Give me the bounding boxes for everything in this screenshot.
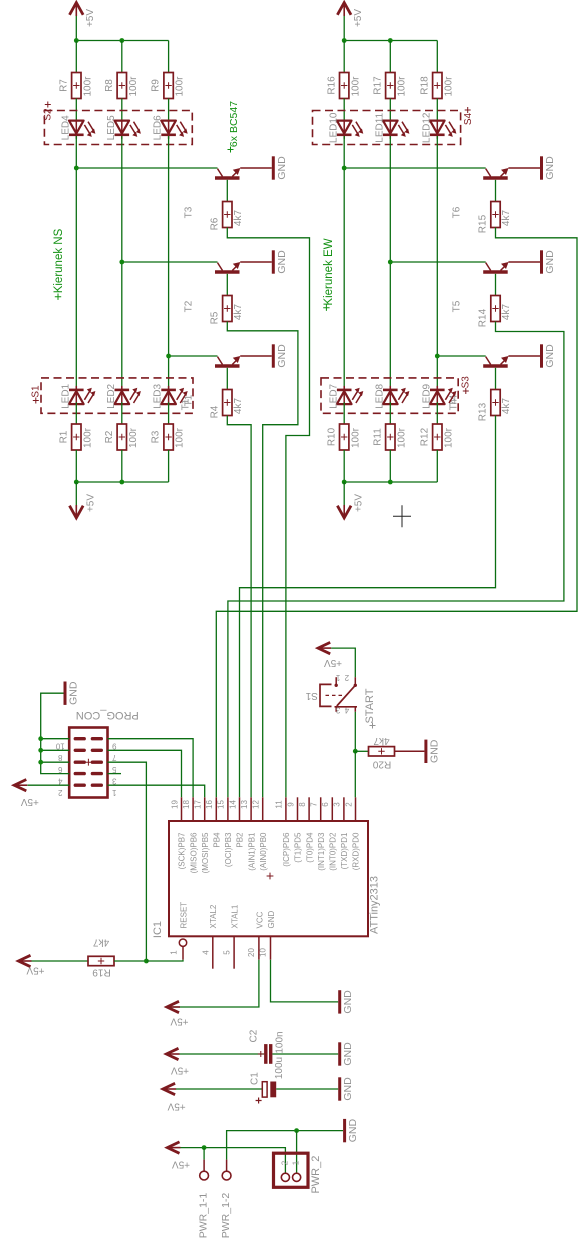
svg-text:(AIN0)PB0: (AIN0)PB0 [259, 832, 268, 871]
wire LED column [121, 136, 123, 389]
svg-text:6: 6 [58, 765, 63, 774]
junction [166, 354, 171, 359]
wire collector row T6 EW [344, 167, 486, 169]
svg-text:(TXD)PD1: (TXD)PD1 [340, 832, 349, 869]
wire collector row T4 EW [437, 355, 485, 357]
ground [340, 1077, 354, 1101]
svg-text:S1: S1 [305, 690, 318, 701]
svg-text:100r: 100r [128, 76, 139, 97]
capacitor C2 [248, 1029, 285, 1064]
svg-text:100r: 100r [443, 427, 454, 448]
wire collector row T5 EW [390, 261, 485, 263]
svg-text:100r: 100r [175, 427, 186, 448]
svg-text:R20: R20 [372, 758, 391, 769]
wire LED column [343, 136, 345, 389]
wire R5 base net to PB0 [227, 322, 298, 798]
wire +5V top rail NS [76, 40, 168, 42]
svg-text:(SCK)PB7: (SCK)PB7 [178, 832, 187, 869]
svg-text:+5V: +5V [26, 964, 44, 975]
svg-text:LED8: LED8 [374, 383, 385, 408]
+5V supply [14, 780, 39, 808]
junction [74, 166, 79, 171]
wire C2 to ground [272, 1053, 338, 1055]
resistor R14 [478, 296, 513, 328]
wire header pin3 stub [108, 773, 122, 775]
svg-text:20: 20 [247, 948, 256, 957]
label Kierunek EW [323, 238, 335, 311]
resistor R5 [209, 296, 244, 325]
svg-text:17: 17 [194, 800, 203, 809]
LED LED2 [106, 383, 141, 408]
wire R4 base net to PB1 [227, 416, 251, 798]
wire R2 to rail [121, 450, 123, 482]
svg-text:PWR_1-2: PWR_1-2 [220, 1193, 232, 1239]
wire header pin2 to +5V [28, 784, 70, 786]
wire +5V bottom rail NS [76, 481, 168, 483]
IC1 pin 18 (MISO)PB6 [182, 797, 198, 873]
svg-text:S3: S3 [460, 376, 471, 389]
svg-text:(T1)PD5: (T1)PD5 [294, 832, 303, 863]
IC1 pin 15 (OCI)PB3 [217, 797, 233, 867]
resistor R17 [372, 73, 407, 99]
wire R19 to junction [114, 960, 146, 962]
svg-text:1: 1 [112, 788, 117, 797]
junction [342, 166, 347, 171]
resistor R7 [58, 73, 93, 99]
wire LED column [75, 136, 77, 389]
+5V supply [337, 3, 363, 41]
wire R14 base net to PB3 [228, 322, 564, 798]
wire +5V to C1 [176, 1088, 262, 1090]
+5V supply [18, 955, 45, 975]
wire VCC net [167, 960, 259, 1007]
svg-text:2: 2 [281, 1160, 290, 1165]
junction [38, 736, 43, 741]
ground [65, 681, 79, 705]
resistor R2 [104, 424, 139, 450]
svg-text:3: 3 [112, 776, 117, 785]
svg-text:100r: 100r [350, 427, 361, 448]
svg-text:4k7: 4k7 [501, 210, 512, 227]
LED group box S2 [42, 102, 192, 145]
svg-text:+5V: +5V [85, 494, 96, 512]
svg-text:100r: 100r [175, 76, 186, 97]
pad PWR_1-2 [220, 1160, 232, 1239]
svg-text:6x BC547: 6x BC547 [228, 101, 240, 147]
svg-text:R15: R15 [478, 214, 489, 233]
resistor R3 [151, 424, 186, 450]
svg-text:10: 10 [55, 741, 64, 750]
svg-text:R16: R16 [326, 76, 337, 95]
svg-text:R12: R12 [419, 427, 430, 446]
svg-text:S1: S1 [30, 385, 41, 398]
svg-text:1: 1 [170, 950, 179, 955]
svg-text:Kierunek EW: Kierunek EW [323, 238, 335, 305]
ground [340, 1042, 354, 1066]
wire emitter to ground [508, 355, 540, 357]
resistor R19 [88, 937, 114, 978]
resistor R16 [326, 73, 361, 99]
wire R7 to rail [75, 41, 77, 73]
label Kierunek NS [53, 228, 65, 300]
LED LED5 [106, 115, 141, 140]
IC1 pin 9 (T1)PD5 [286, 797, 302, 862]
svg-text:+5V: +5V [353, 9, 364, 27]
svg-text:R6: R6 [209, 217, 220, 230]
wire LED column [436, 136, 438, 389]
svg-text:(AIN1)PB1: (AIN1)PB1 [247, 832, 256, 871]
wire PWR_1-2 to ground rail [227, 1131, 343, 1160]
junction [388, 260, 393, 265]
svg-text:+5V: +5V [167, 1100, 185, 1111]
svg-text:18: 18 [182, 800, 191, 809]
ground [542, 156, 556, 180]
svg-text:4k7: 4k7 [373, 735, 390, 746]
switch S1 START [305, 673, 357, 715]
junction [74, 480, 79, 485]
svg-text:4k7: 4k7 [233, 210, 244, 227]
svg-text:13: 13 [240, 800, 249, 809]
svg-text:LED10: LED10 [328, 112, 339, 143]
wire header pin10 [41, 738, 69, 740]
svg-text:T2: T2 [184, 300, 195, 312]
LED LED3 [153, 383, 188, 408]
wire header pin8 [41, 749, 69, 751]
junction [74, 38, 79, 43]
svg-text:PB2: PB2 [236, 832, 245, 848]
svg-text:PROG_CON: PROG_CON [76, 709, 139, 721]
svg-text:100r: 100r [396, 427, 407, 448]
svg-text:3: 3 [335, 706, 340, 715]
LED LED7 [328, 383, 363, 408]
wire junction to R20 [355, 750, 368, 752]
svg-text:(OCI)PB3: (OCI)PB3 [224, 832, 233, 867]
wire base [495, 368, 497, 390]
svg-text:LED7: LED7 [328, 383, 339, 408]
svg-text:R2: R2 [104, 430, 115, 443]
svg-text:LED4: LED4 [60, 115, 71, 140]
wire base [226, 368, 228, 390]
ground [273, 344, 287, 368]
svg-text:4k7: 4k7 [501, 304, 512, 321]
svg-text:GND: GND [347, 1119, 359, 1143]
resistor R15 [478, 202, 513, 234]
svg-text:LED2: LED2 [106, 383, 117, 408]
svg-text:T5: T5 [452, 300, 463, 312]
svg-text:C1: C1 [250, 1072, 261, 1085]
svg-text:LED3: LED3 [153, 383, 164, 408]
svg-text:4: 4 [344, 706, 349, 715]
svg-text:2: 2 [344, 673, 349, 682]
svg-text:Kierunek NS: Kierunek NS [53, 228, 65, 293]
svg-text:15: 15 [217, 800, 226, 809]
svg-text:START: START [364, 688, 376, 723]
resistor R6 [209, 202, 244, 231]
wire LED column [168, 136, 170, 389]
LED group box S4 [313, 107, 475, 145]
resistor R20 [369, 735, 395, 769]
svg-text:S4: S4 [463, 112, 474, 125]
svg-text:4k7: 4k7 [233, 398, 244, 415]
svg-text:PWR_2: PWR_2 [310, 1156, 322, 1194]
svg-text:7: 7 [112, 753, 117, 762]
svg-text:(MOSI)PB5: (MOSI)PB5 [201, 832, 210, 873]
svg-text:100r: 100r [350, 76, 361, 97]
svg-text:(ICP)PD6: (ICP)PD6 [282, 832, 291, 867]
wire R17 to rail [389, 41, 391, 73]
transistor T5 [452, 262, 509, 312]
svg-text:PWR_1-1: PWR_1-1 [197, 1193, 209, 1239]
transistor T4 [449, 356, 509, 406]
wire base [495, 274, 497, 296]
IC1 pin 17 (MOSI)PB5 [194, 797, 210, 873]
ground [542, 344, 556, 368]
svg-text:R17: R17 [372, 76, 383, 95]
svg-text:LED12: LED12 [421, 112, 432, 143]
transistor T2 [184, 262, 241, 312]
junction [435, 354, 440, 359]
wire R12 to rail [436, 450, 438, 482]
svg-text:+5V: +5V [172, 1158, 190, 1169]
wire R13 base net to PB2 [240, 416, 496, 798]
svg-text:IC1: IC1 [152, 921, 164, 938]
wire LED to R12 [436, 402, 438, 424]
svg-text:4: 4 [58, 776, 63, 785]
wire R6 base net to PD6 [227, 228, 309, 798]
ground [542, 250, 556, 274]
svg-text:R7: R7 [58, 79, 69, 92]
wire LED to R10 [343, 402, 345, 424]
wire C1 to ground [276, 1088, 338, 1090]
IC1 pin 8 (T0)PD4 [298, 797, 314, 862]
resistor R13 [478, 390, 513, 422]
transistor T6 [452, 168, 509, 218]
svg-text:100r: 100r [396, 76, 407, 97]
+5V supply [167, 1142, 190, 1170]
svg-text:5: 5 [112, 765, 117, 774]
+5V supply [70, 482, 97, 518]
svg-text:GND: GND [267, 911, 276, 929]
svg-text:7: 7 [310, 802, 319, 807]
ground [426, 739, 440, 763]
svg-text:R8: R8 [104, 79, 115, 92]
svg-text:+5V: +5V [171, 1064, 189, 1075]
svg-text:6: 6 [321, 802, 330, 807]
junction [342, 38, 347, 43]
junction [144, 959, 149, 964]
svg-text:+5V: +5V [353, 494, 364, 512]
svg-text:R13: R13 [478, 402, 489, 421]
svg-text:100r: 100r [82, 76, 93, 97]
LED LED6 [153, 115, 188, 140]
junction [294, 1128, 299, 1133]
svg-text:1: 1 [335, 673, 340, 682]
wire R16 to rail [343, 41, 345, 73]
svg-text:4k7: 4k7 [233, 304, 244, 321]
IC1 pin 10 GND [259, 911, 276, 960]
LED LED1 [60, 383, 95, 408]
wire LED to R3 [168, 402, 170, 424]
transistor T1 [184, 356, 241, 406]
svg-text:R14: R14 [478, 308, 489, 327]
LED LED11 [374, 112, 409, 142]
wire R15 base net to PB4 [216, 228, 577, 798]
LED LED9 [421, 383, 456, 408]
svg-text:100r: 100r [443, 76, 454, 97]
wire LED to R2 [121, 402, 123, 424]
+5V supply [166, 1048, 189, 1075]
wire junction to PD0 [354, 751, 356, 797]
wire +5V PWR rail [181, 1148, 286, 1174]
LED LED8 [374, 383, 409, 408]
svg-text:GND: GND [342, 990, 354, 1014]
pad PWR_1-1 [197, 1148, 209, 1239]
svg-text:R18: R18 [419, 76, 430, 95]
wire base [226, 180, 228, 202]
svg-text:LED9: LED9 [421, 383, 432, 408]
wire collector row T1 NS [169, 355, 218, 357]
IC1 pin 5 XTAL1 [223, 904, 240, 969]
IC1 pin 7 (INT1)PD3 [310, 797, 326, 870]
svg-text:4: 4 [201, 950, 210, 955]
IC U1 ATtiny2313 [152, 821, 381, 938]
wire LED to R11 [389, 402, 391, 424]
svg-text:GND: GND [342, 1077, 354, 1101]
IC1 pin 13 (AIN1)PB1 [240, 797, 256, 870]
IC1 pin 4 XTAL2 [201, 904, 218, 969]
IC1 pin 12 (AIN0)PB0 [252, 797, 268, 870]
wire +5V to C2 [180, 1053, 265, 1055]
svg-text:ATTiny2313: ATTiny2313 [369, 876, 381, 934]
svg-text:3: 3 [333, 802, 342, 807]
resistor R18 [419, 73, 454, 99]
svg-text:(INT1)PD3: (INT1)PD3 [317, 832, 326, 871]
resistor R12 [419, 424, 454, 450]
wire R9 to rail [168, 41, 170, 73]
resistor R10 [326, 424, 361, 450]
wire R3 to rail [168, 450, 170, 482]
svg-text:8: 8 [58, 753, 63, 762]
wire LED column [389, 136, 391, 389]
wire R8 to rail [121, 41, 123, 73]
wire GND net pin10 [271, 960, 339, 1002]
svg-text:LED6: LED6 [153, 115, 164, 140]
sheet origin cross [393, 505, 411, 527]
IC1 pin 14 PB2 [228, 797, 244, 847]
wire R18 to rail [436, 41, 438, 73]
svg-text:GND: GND [67, 681, 79, 705]
+5V supply [163, 1083, 186, 1111]
svg-text:2: 2 [58, 788, 63, 797]
LED LED12 [421, 112, 456, 143]
wire junction to RESET pin [146, 960, 183, 961]
junction [353, 749, 358, 754]
connector PROG_CON [55, 709, 138, 797]
svg-text:1: 1 [292, 1160, 301, 1165]
label 6x BC547 [228, 101, 240, 153]
IC1 pin 20 VCC [247, 911, 264, 959]
svg-text:+5V: +5V [324, 657, 342, 668]
wire LED to R1 [75, 402, 77, 424]
svg-text:GND: GND [544, 250, 556, 274]
svg-text:100n: 100n [275, 1031, 286, 1053]
svg-text:T6: T6 [452, 206, 463, 218]
svg-text:5: 5 [223, 950, 232, 955]
connector PWR_2 [274, 1153, 322, 1193]
wire R7 to LED [75, 99, 77, 123]
wire R10 to rail [343, 450, 345, 482]
wire emitter to ground [240, 167, 272, 169]
svg-text:T3: T3 [184, 206, 195, 218]
+5V supply [70, 3, 96, 41]
svg-text:LED1: LED1 [60, 383, 71, 408]
svg-text:GND: GND [276, 156, 288, 180]
resistor R9 [151, 73, 186, 99]
wire PROG_CON ground bus [41, 693, 69, 773]
junction [342, 480, 347, 485]
resistor R8 [104, 73, 139, 99]
wire emitter to ground [508, 261, 540, 263]
svg-text:100r: 100r [82, 427, 93, 448]
svg-text:GND: GND [428, 739, 440, 763]
svg-text:12: 12 [252, 800, 261, 809]
svg-text:100u: 100u [274, 1057, 285, 1079]
svg-text:+5V: +5V [170, 1015, 188, 1026]
wire R17 to LED [389, 99, 391, 123]
svg-text:14: 14 [228, 800, 237, 809]
LED LED10 [328, 112, 363, 143]
svg-text:GND: GND [276, 344, 288, 368]
svg-text:9: 9 [112, 741, 117, 750]
+5V supply [337, 482, 364, 518]
svg-text:VCC: VCC [255, 911, 264, 928]
svg-text:R11: R11 [372, 428, 383, 446]
wire header pin7 to PB7 [108, 750, 182, 797]
ground [273, 250, 287, 274]
wire switch to R20 junction [354, 712, 356, 751]
wire header pin5 to RESET [108, 762, 147, 961]
svg-text:LED5: LED5 [106, 115, 117, 140]
svg-text:+5V: +5V [20, 796, 38, 807]
svg-text:(MISO)PB6: (MISO)PB6 [189, 832, 198, 873]
svg-text:8: 8 [298, 802, 307, 807]
svg-text:9: 9 [286, 802, 295, 807]
svg-text:11: 11 [275, 800, 284, 809]
svg-text:R3: R3 [151, 430, 162, 443]
svg-text:4k7: 4k7 [501, 398, 512, 415]
svg-text:XTAL2: XTAL2 [209, 904, 218, 928]
LED group box S3 [321, 376, 471, 414]
LED LED4 [60, 115, 95, 140]
svg-text:S2: S2 [42, 108, 53, 121]
ground [273, 156, 287, 180]
svg-text:R10: R10 [326, 427, 337, 446]
svg-text:(T0)PD4: (T0)PD4 [305, 832, 314, 863]
svg-text:GND: GND [544, 156, 556, 180]
resistor R11 [372, 424, 407, 450]
junction [202, 1145, 207, 1150]
wire R9 to LED [168, 99, 170, 123]
svg-text:C2: C2 [248, 1029, 259, 1042]
+5V supply START [318, 642, 342, 667]
wire to PWR_2 pin1 [296, 1131, 298, 1174]
resistor R1 [58, 424, 93, 450]
IC1 pin 2 (RXD)PD0 [344, 797, 360, 870]
svg-text:(INT0)PD2: (INT0)PD2 [329, 832, 338, 871]
ground [340, 990, 354, 1014]
wire R11 to rail [389, 450, 391, 482]
svg-text:XTAL1: XTAL1 [231, 904, 240, 928]
